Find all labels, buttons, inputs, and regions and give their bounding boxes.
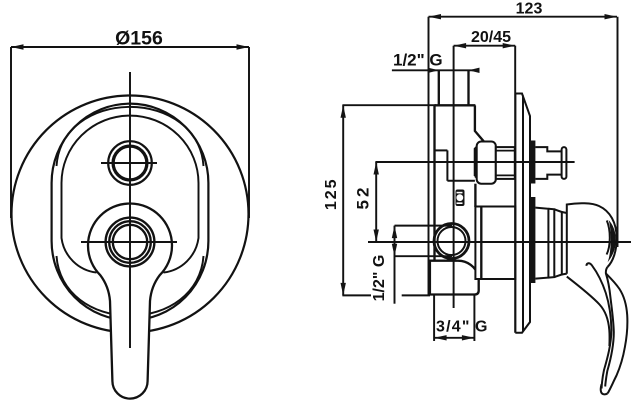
side port circle outer [434, 224, 469, 259]
dim 125 line [342, 105, 344, 295]
escutcheon raised oval outer [52, 104, 209, 321]
svg-text:1/2" G: 1/2" G [371, 255, 388, 302]
top port dim arrows [428, 68, 480, 73]
body right edge upper with cone flare [475, 105, 483, 176]
svg-text:20/45: 20/45 [471, 29, 511, 46]
escutcheon bevel arc bottom [57, 256, 204, 316]
lever outer right edge [606, 267, 628, 393]
3/4 port dim line [434, 337, 474, 339]
svg-text:G: G [475, 319, 487, 336]
wall plate second line [522, 96, 524, 332]
dim 123 line [429, 17, 618, 295]
outlet pipe through plate [535, 147, 561, 151]
svg-text:1/2" G: 1/2" G [393, 51, 443, 70]
dome black crescent [608, 220, 616, 262]
3/4 port dim arrows [434, 335, 474, 340]
dim Ø156 arrows [11, 44, 249, 49]
cartridge inner vertical [480, 207, 482, 280]
cartridge crosshair [81, 241, 177, 243]
lever handle (balloon + shaft), white filled over oval [88, 204, 172, 399]
outlet cylinder [496, 147, 515, 179]
125 top reference leader [342, 104, 436, 106]
body step under inlet [435, 149, 448, 151]
cartridge ring 3 [113, 225, 147, 259]
leader + dim line of top port [392, 69, 473, 71]
lever tip curl [601, 384, 608, 394]
dim 52 line [375, 162, 377, 242]
gasket bar top (black) [530, 141, 536, 184]
outlet nut [477, 142, 496, 184]
outlet pipe end pill [562, 147, 567, 179]
svg-text:Ø156: Ø156 [115, 28, 163, 50]
side port dim arrows [392, 226, 397, 257]
rings behind plate [535, 208, 548, 279]
outer plate circle [12, 96, 249, 333]
vertical centerline [129, 72, 131, 348]
lever inner right line [605, 273, 614, 386]
cartridge ring 1 [106, 218, 155, 267]
escutcheon bevel arc top [57, 107, 204, 166]
wall plate front face [514, 94, 516, 333]
dim 123 arrows [429, 14, 618, 19]
side port tangent top [395, 225, 453, 227]
outlet axis centerline [375, 161, 574, 163]
diverter crosshair [101, 162, 157, 164]
dim Ø156 line [11, 47, 249, 218]
escutcheon raised oval inner [62, 116, 199, 273]
cartridge axis centerline [368, 241, 631, 243]
handle dome cap [567, 203, 617, 274]
cartridge ring 2 [109, 221, 151, 263]
dim 20/45 line [454, 46, 516, 308]
outlet chamfer bottom [475, 176, 485, 184]
3/4 port left extension [433, 294, 435, 341]
dome inner arc [607, 221, 610, 255]
body right edge below outlet [474, 184, 476, 207]
diverter knob outer circle [108, 141, 152, 185]
diverter knob inner circle [113, 146, 147, 180]
svg-text:123: 123 [516, 1, 543, 18]
svg-text:52: 52 [354, 185, 373, 210]
bottom reference leader (interrupted by rotated label) [342, 294, 371, 296]
wall plate chamfered back outline [515, 94, 530, 333]
upper body box [435, 104, 476, 106]
3/4 port right extension [473, 294, 475, 341]
lever crease from hook [586, 263, 611, 388]
dim 52 arrows [374, 162, 379, 242]
svg-text:125: 125 [323, 177, 340, 210]
svg-text:3/4": 3/4" [436, 319, 471, 336]
gasket bar cartridge (black) [530, 197, 536, 283]
side port circle inner [438, 227, 466, 255]
set screw detail [456, 190, 465, 207]
cartridge cylinder [475, 207, 515, 280]
dim 125 arrows [341, 105, 346, 295]
side port dim line [394, 226, 396, 304]
lever left sweep edge [567, 277, 610, 346]
top inlet pipe [438, 70, 440, 105]
lower chamber with fillet [430, 261, 479, 295]
outlet cylinder inner lines [496, 150, 515, 152]
side port tangent bottom [395, 255, 453, 257]
dim 20/45 arrows [454, 43, 516, 48]
